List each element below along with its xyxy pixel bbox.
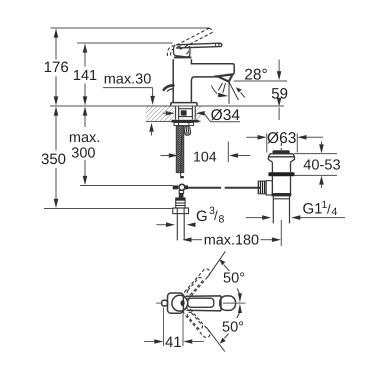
svg-text:50°: 50° [223,271,245,287]
lever base [174,45,190,57]
top view lever arm [186,296,222,311]
connection pipes down [176,214,178,241]
G3/8 nipple cylinder [176,198,185,208]
thin vertical rod [181,136,182,177]
top view handle circle [172,295,188,311]
mounting washer (dark) [171,120,198,123]
dashed lever base arc (raised) [167,46,173,56]
lever tip cap detail [216,43,219,46]
top view circle dark slot [181,300,185,306]
svg-text:59: 59 [271,86,288,103]
drain tailpipe [273,196,289,223]
drain bottom nut (dark) [272,193,292,196]
reference line top (raised lever height) [51,27,210,29]
svg-text:4: 4 [332,206,338,218]
svg-text:300: 300 [71,145,95,161]
water stream 28deg line [229,82,238,100]
dimension diameter 63 [246,130,323,153]
drain lever knurled knob [258,181,266,194]
svg-text:104: 104 [193,149,217,165]
stream angle arrow left curved [211,86,228,98]
reference line 350 bottom [44,208,173,210]
svg-text:40-53: 40-53 [303,157,340,173]
dimension max180 [183,220,282,248]
drain plug top (dark) [272,150,289,154]
svg-text:max.180: max.180 [204,232,259,248]
mounting nut [174,123,194,126]
top view body square [168,293,184,313]
drain flange [268,154,294,162]
faucet base plate [171,103,197,106]
drain centerline dashes [280,143,282,150]
ball joint left nut [173,185,178,189]
svg-text:141: 141 [73,68,97,84]
bowtie arrows at lever tip [237,288,242,318]
svg-text:G: G [196,208,208,225]
dashed rotated lever lower [182,307,212,340]
pop-up rod upper piece (knurled) [184,126,191,136]
svg-text:max.30: max.30 [104,71,152,87]
drain gasket (dark band) [268,172,294,176]
dimension max30 (deck thickness) [103,71,155,135]
clamp screw dark [179,193,184,198]
ball joint right nub [185,185,188,189]
rod clamp square [180,176,184,178]
spout aerator wedge [217,74,232,81]
deck top line [50,105,284,107]
G3/8 nut [173,208,189,214]
cartridge bottom box in hole [179,109,193,117]
lever handle bar (rest position) [176,43,222,48]
dimension G3/8 [156,205,224,227]
water stream vertical line [228,82,230,104]
svg-text:8: 8 [219,214,225,226]
centerline left stub [156,302,162,304]
dimension 104 [161,142,251,166]
svg-text:/: / [327,202,331,217]
svg-text:176: 176 [44,59,69,76]
top view pop-up knob stub [162,300,168,306]
reference line lever rest height [77,42,173,44]
svg-text:50°: 50° [222,319,244,335]
drain body lower [272,176,290,193]
dashed rotated lever upper [182,267,212,300]
reference line max300 bottom [80,185,173,187]
dimension 176 [44,29,69,106]
lower 50 leader arrow [220,334,229,344]
dimension 59 [271,60,288,120]
dimension 40-53 [294,142,341,189]
dimension 141 [73,44,97,106]
faucet body outline [172,59,174,102]
upper 50 leader arrow [219,259,229,271]
dimension 350 [41,107,66,208]
ball joint ball [179,184,185,190]
horizontal pop-up rod (broken) [188,187,221,189]
dimension 28deg [234,67,287,84]
water stream short lines [218,83,225,93]
cartridge dark center [181,110,187,115]
dimension G1 1/4 [246,199,345,220]
flexible hose column (braided) [176,126,183,173]
drain lever clevis [266,181,272,195]
centerline right [223,302,246,304]
dashed raised lever [167,28,212,56]
drain body upper [272,162,290,172]
faucet body right and spout outline [191,59,234,102]
svg-text:41: 41 [165,334,182,351]
stream angle arrow right [236,87,245,97]
svg-text:max.: max. [69,130,100,146]
pop-up rod knob on body [164,85,174,90]
threaded shank walls in deck hole [176,107,196,120]
top view lever end cap [220,296,236,311]
shadow band under lever base [174,57,192,59]
svg-text:350: 350 [41,151,66,168]
lower rotated axis line [206,327,225,352]
lever base inner arcs [177,46,189,54]
svg-text:Ø34: Ø34 [211,107,241,124]
dimension max300 [69,107,100,185]
upper rotated axis line [208,251,226,277]
svg-text:28°: 28° [244,67,267,84]
top view lever slot [188,298,214,307]
deck slab hatched left of faucet [146,107,201,122]
dimension 41 [144,308,203,352]
svg-text:/: / [214,208,218,223]
dimension diameter 34 [163,107,241,124]
svg-text:G1: G1 [303,201,323,218]
clamp link below ball [179,190,183,193]
